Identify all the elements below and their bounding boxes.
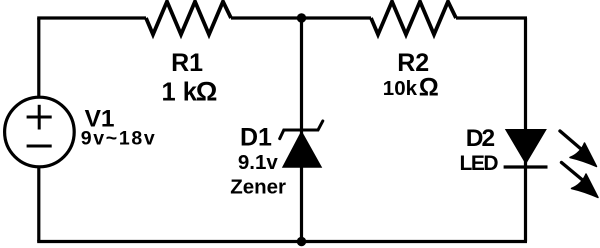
value label 1 kOhm xyxy=(162,76,218,106)
label D1 xyxy=(240,123,272,151)
LED D2 triangle (pointing down) xyxy=(506,130,546,164)
LED D2 light-emission arrow 2 xyxy=(562,163,599,198)
wire: right branch (outer loop right side) xyxy=(524,18,527,242)
wire: top-left segment (V1 to R1) xyxy=(37,16,146,19)
value label LED xyxy=(460,152,499,175)
value label 9.1v xyxy=(238,151,278,174)
resistor R1 xyxy=(146,2,231,35)
svg-text:R1: R1 xyxy=(171,49,203,77)
svg-text:D1: D1 xyxy=(240,123,272,151)
LED D2 cathode bar xyxy=(504,165,548,168)
wire: top-right segment (R2 to D2 branch) xyxy=(456,16,527,19)
resistor R2 xyxy=(371,2,456,35)
svg-text:9.1v: 9.1v xyxy=(238,151,278,174)
wire: bottom rail xyxy=(37,240,527,243)
voltage source V1 minus sign xyxy=(27,145,52,148)
svg-text:9v~18v: 9v~18v xyxy=(81,128,157,150)
voltage source V1 plus sign xyxy=(27,105,52,130)
label R2 xyxy=(397,49,429,77)
svg-text:10k: 10k xyxy=(383,77,418,100)
wire: middle branch (node to zener to ground rail) xyxy=(300,18,303,242)
node junction dot (top, R1/R2/D1) xyxy=(297,13,306,22)
zener diode D1 cathode bar with bent ends xyxy=(280,121,323,139)
zener diode D1 triangle (anode, pointing up) xyxy=(283,132,322,168)
value label 10kOhm xyxy=(383,73,439,101)
svg-text:Ω: Ω xyxy=(419,73,439,101)
svg-text:D2: D2 xyxy=(466,125,495,152)
svg-text:1 k: 1 k xyxy=(162,78,198,106)
wire: left branch (outer loop left side) xyxy=(37,18,40,242)
wire: top-middle segment (R1 to R2 through node) xyxy=(231,16,371,19)
svg-text:Ω: Ω xyxy=(196,76,218,106)
svg-text:LED: LED xyxy=(460,152,499,175)
label V1 xyxy=(85,106,115,133)
node junction dot (bottom, D1/ground rail) xyxy=(297,237,306,246)
voltage source V1 circle xyxy=(5,97,75,167)
svg-text:Zener: Zener xyxy=(230,176,286,199)
value label Zener xyxy=(230,176,286,199)
LED D2 light-emission arrow 1 xyxy=(560,131,597,167)
value label 9v~18v xyxy=(81,128,157,150)
label R1 xyxy=(171,49,203,77)
label D2 xyxy=(466,125,495,152)
